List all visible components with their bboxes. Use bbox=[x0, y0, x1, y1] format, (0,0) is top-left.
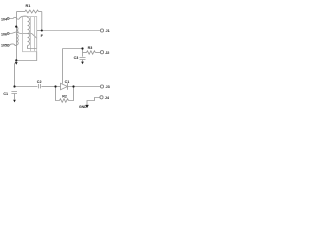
junction bus bottom bbox=[15, 59, 17, 61]
terminal J3 bbox=[100, 85, 103, 88]
junction diode left bbox=[54, 85, 56, 87]
svg-text:F: F bbox=[41, 34, 44, 38]
svg-text:106: 106 bbox=[1, 33, 7, 37]
wire 106 tap bbox=[9, 32, 36, 38]
wire right drop bbox=[41, 12, 43, 31]
svg-text:J3: J3 bbox=[106, 85, 110, 89]
svg-text:C2: C2 bbox=[37, 80, 42, 84]
svg-text:R1: R1 bbox=[26, 4, 31, 8]
transformer core bbox=[30, 17, 32, 51]
wire 104 bbox=[9, 16, 27, 19]
svg-text:J4: J4 bbox=[105, 96, 110, 100]
net arrow below bus bbox=[15, 62, 18, 65]
capacitor C2 bbox=[38, 84, 40, 88]
junction bus tap bbox=[15, 26, 17, 28]
resistor R3 bbox=[87, 51, 96, 54]
wire diode to J3 bbox=[68, 86, 101, 88]
wire J4 to GND bbox=[87, 98, 100, 105]
wire 105 bbox=[9, 44, 16, 46]
junction node F bbox=[41, 29, 43, 31]
transformer box bbox=[23, 17, 37, 52]
junction C3 top bbox=[81, 47, 83, 49]
net arrow below C1 bbox=[13, 100, 16, 103]
inductor primary winding lower bbox=[17, 34, 19, 45]
wire R3 row bbox=[83, 52, 87, 54]
resistor R1 bbox=[25, 10, 39, 13]
svg-text:R3: R3 bbox=[88, 46, 93, 50]
net arrow below C3 bbox=[81, 62, 84, 65]
svg-text:C1: C1 bbox=[65, 80, 70, 84]
junction C1 top bbox=[13, 85, 15, 87]
inductor secondary winding bbox=[27, 17, 29, 18]
svg-text:C1: C1 bbox=[3, 92, 8, 96]
diode C1 bbox=[61, 83, 68, 89]
wire secondary bottom bbox=[28, 46, 37, 49]
wire top bbox=[17, 11, 26, 13]
wire top right bbox=[39, 11, 42, 13]
wire down to diode top bbox=[62, 49, 64, 84]
capacitor C3 bbox=[80, 58, 86, 60]
svg-text:C3: C3 bbox=[74, 56, 79, 60]
svg-text:105: 105 bbox=[1, 44, 7, 48]
terminal J1 bbox=[100, 29, 103, 32]
wire node F to J1 bbox=[37, 30, 43, 32]
terminal 104 bbox=[7, 18, 9, 20]
wire C2 row left bbox=[15, 86, 38, 88]
inductor primary winding upper bbox=[17, 27, 19, 33]
wire left bus bbox=[16, 12, 18, 61]
capacitor C1 bbox=[11, 92, 17, 94]
wire jog down to C1 branch bbox=[15, 61, 17, 87]
terminal J2 bbox=[100, 51, 103, 54]
svg-text:J1: J1 bbox=[106, 29, 110, 33]
wire C3 branch top bbox=[63, 48, 83, 50]
svg-text:GND: GND bbox=[79, 105, 87, 109]
wire C3 stub bbox=[82, 49, 84, 57]
wire box edge to node F bbox=[36, 31, 38, 49]
wire to diode bbox=[56, 86, 61, 88]
terminal 105 bbox=[7, 44, 9, 46]
terminal J4 bbox=[100, 96, 103, 99]
svg-text:J2: J2 bbox=[105, 51, 109, 55]
svg-text:R2: R2 bbox=[62, 95, 67, 99]
resistor R2 loop bbox=[56, 87, 60, 101]
junction diode right bbox=[72, 85, 74, 87]
svg-text:104: 104 bbox=[1, 17, 7, 21]
wire bottom of bus bbox=[17, 52, 37, 61]
ground symbol GND bbox=[85, 105, 88, 108]
terminal 106 bbox=[7, 33, 9, 35]
